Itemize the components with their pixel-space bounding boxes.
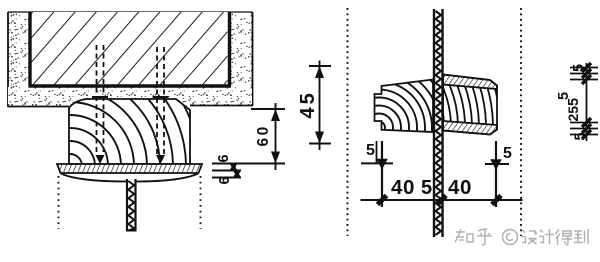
计	[539, 229, 554, 244]
dimension 5 left (top)	[361, 141, 393, 207]
svg-text:40: 40	[448, 176, 472, 199]
nail 2 (dashed hidden lines, head cap, tip)	[153, 47, 169, 164]
dotted boundary line left	[347, 8, 349, 236]
top edge line	[8, 11, 253, 13]
right vertical dimension chain 5 5 25 5	[556, 63, 598, 141]
partition board (left detail, zigzag ply)	[126, 179, 137, 231]
svg-text:5: 5	[421, 177, 432, 199]
得	[556, 230, 573, 246]
svg-text:6: 6	[216, 154, 232, 162]
plaster stipple bottom band	[8, 87, 253, 110]
设	[521, 230, 537, 244]
dimension 6 (lower)	[212, 171, 241, 185]
svg-text:25: 25	[565, 106, 581, 122]
svg-text:5: 5	[366, 142, 375, 159]
到	[574, 229, 588, 244]
svg-text:40: 40	[391, 176, 415, 199]
dotted projection line left	[58, 176, 60, 229]
dimension 45 (middle)	[297, 61, 331, 151]
nail 1 (dashed hidden lines, head cap, tip)	[92, 45, 108, 164]
svg-text:6: 6	[217, 176, 233, 184]
concrete slab hatched	[29, 12, 232, 86]
svg-text:5: 5	[573, 132, 589, 140]
plaster stipple left column	[8, 12, 29, 107]
wood batten left part	[309, 58, 449, 198]
watermark 知乎 @设计得到	[455, 229, 588, 245]
dimension 5 right (top)	[485, 141, 512, 207]
vertical board (ply, zigzag)	[434, 9, 443, 237]
dotted boundary line right	[520, 8, 522, 236]
plaster lath strip (hatched)	[57, 164, 202, 173]
dotted projection line right	[200, 176, 202, 229]
bottom dimension chain 40 5 40	[361, 176, 523, 205]
svg-text:60: 60	[255, 124, 272, 146]
dimension 6 (upper)	[212, 154, 285, 170]
svg-text:5: 5	[503, 145, 512, 162]
plaster fillet curves	[61, 174, 198, 182]
svg-text:5: 5	[571, 64, 587, 72]
wood batten right part	[200, 0, 500, 262]
svg-text:45: 45	[297, 90, 319, 118]
svg-text:5: 5	[566, 98, 582, 106]
wood nailing block	[0, 37, 199, 262]
dimension 60	[251, 103, 285, 170]
@	[503, 230, 518, 245]
plaster stipple right column	[231, 12, 253, 106]
乎	[477, 229, 492, 245]
知	[455, 229, 473, 242]
